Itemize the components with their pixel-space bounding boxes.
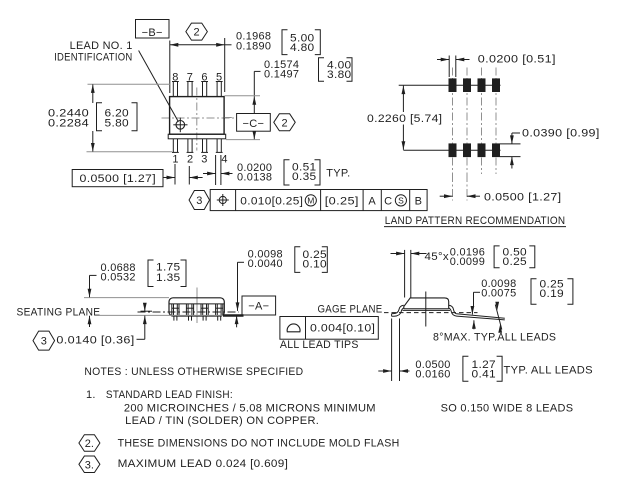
svg-text:LEAD NO. 1: LEAD NO. 1 — [70, 40, 133, 52]
chamfer extension lines — [404, 250, 406, 298]
D dimension line — [170, 44, 225, 46]
land pattern bottom pads — [449, 144, 456, 157]
fcf hexagon note 3 — [189, 191, 210, 210]
standoff tick line — [141, 310, 153, 312]
svg-text:0.0160: 0.0160 — [415, 368, 450, 380]
svg-text:THESE DIMENSIONS DO NOT INCLUD: THESE DIMENSIONS DO NOT INCLUDE MOLD FLA… — [118, 437, 400, 449]
E1 dim leader elbow — [254, 70, 260, 72]
hexagon note 2 (beside -C-) — [274, 114, 296, 131]
top view body outline — [170, 97, 225, 135]
svg-text:3: 3 — [196, 195, 202, 207]
svg-text:0.0075: 0.0075 — [481, 288, 516, 300]
top view body bottom strip — [168, 134, 226, 139]
svg-text:0.25: 0.25 — [503, 256, 528, 268]
svg-text:4: 4 — [221, 154, 227, 166]
land pattern pad centerlines — [452, 68, 454, 175]
note 3 hexagon — [79, 456, 100, 473]
lead width metric bracket [0.51/0.35] — [284, 160, 290, 185]
svg-text:2: 2 — [281, 117, 287, 129]
svg-text:0.0140 [0.36]: 0.0140 [0.36] — [56, 334, 134, 346]
pad length arrows — [511, 133, 513, 144]
svg-text:0.41: 0.41 — [472, 369, 497, 381]
side view lead centerline dash-dot — [138, 311, 239, 313]
svg-text:3: 3 — [201, 154, 207, 166]
lead width arrows — [203, 173, 216, 175]
svg-text:8°MAX. TYP.ALL LEADS: 8°MAX. TYP.ALL LEADS — [433, 332, 556, 344]
flatness dome symbol — [287, 324, 300, 332]
svg-text:A: A — [368, 195, 376, 207]
a1 dim metric bracket [0.25/0.10] — [295, 247, 301, 273]
8 degree arrows — [495, 302, 499, 311]
lead thickness metric bracket [0.25/0.19] — [531, 279, 537, 304]
end view body outline — [404, 298, 449, 309]
svg-text:MAXIMUM LEAD 0.024 [0.609]: MAXIMUM LEAD 0.024 [0.609] — [118, 458, 289, 470]
side view body outline — [169, 298, 224, 316]
svg-text:STANDARD LEAD FINISH:: STANDARD LEAD FINISH: — [106, 389, 233, 401]
pad length leader elbow — [512, 132, 520, 134]
svg-text:0.2260 [5.74]: 0.2260 [5.74] — [367, 113, 442, 125]
E1 dim metric bracket [4.00/3.80] — [319, 58, 325, 81]
D dim metric bracket [5.00/4.80] — [282, 30, 288, 55]
flatness control box — [280, 317, 378, 340]
top view dash-dot vertical centerline — [196, 88, 198, 151]
svg-text:M: M — [307, 196, 314, 206]
E dim bottom extension line — [87, 151, 173, 153]
svg-text:0.10: 0.10 — [303, 258, 328, 270]
pitch dim extension line pin1 — [174, 164, 176, 185]
side view top extension line — [84, 297, 169, 299]
foot length extension lines — [391, 319, 393, 382]
svg-text:TYP. ALL LEADS: TYP. ALL LEADS — [504, 364, 593, 376]
a1 dim lower arrow — [236, 316, 238, 328]
foot length arrows — [378, 370, 391, 372]
svg-text:0.0200 [0.51]: 0.0200 [0.51] — [478, 53, 556, 65]
svg-text:1.: 1. — [86, 389, 96, 401]
svg-text:1.35: 1.35 — [156, 272, 181, 284]
svg-text:0.0138: 0.0138 — [237, 171, 272, 183]
note 2 hexagon — [79, 435, 100, 452]
height dim leader — [90, 274, 97, 276]
top view pins 8 7 6 5 (top leads) — [172, 82, 174, 97]
svg-text:0.1497: 0.1497 — [264, 69, 299, 81]
top view pins 1 2 3 4 (bottom leads) — [172, 139, 174, 152]
svg-text:1: 1 — [172, 154, 178, 166]
svg-text:0.0099: 0.0099 — [450, 256, 485, 268]
land pattern top pads — [449, 79, 456, 92]
pad width extension lines — [448, 56, 450, 78]
body centerline right stub — [225, 117, 232, 119]
pitch dim arrows — [163, 177, 175, 179]
svg-text:5: 5 — [216, 72, 222, 84]
svg-text:3.80: 3.80 — [327, 69, 352, 81]
svg-text:0.0532: 0.0532 — [101, 271, 136, 283]
D dim right extension line — [224, 38, 226, 92]
svg-text:GAGE PLANE: GAGE PLANE — [318, 304, 383, 316]
E1 dim top extension line — [225, 95, 261, 97]
side view gray center vline — [196, 288, 198, 324]
E dimension line vertical — [92, 84, 94, 103]
svg-text:B: B — [415, 195, 423, 207]
8 degree angle line — [495, 305, 502, 330]
svg-text:ALL LEAD TIPS: ALL LEAD TIPS — [280, 339, 359, 351]
land span dimension line — [402, 86, 404, 112]
svg-text:0.004[0.10]: 0.004[0.10] — [310, 323, 375, 335]
land pattern top row line — [399, 84, 501, 86]
E1 dim bottom extension line — [226, 139, 260, 141]
svg-text:2.: 2. — [85, 438, 94, 450]
svg-text:5.80: 5.80 — [105, 118, 130, 130]
fcf position symbol — [219, 196, 226, 203]
a1 dim leader elbow — [238, 261, 245, 263]
svg-text:0.1890: 0.1890 — [236, 41, 271, 53]
svg-text:S: S — [398, 196, 404, 206]
fcf outer box — [210, 190, 427, 211]
hexagon note 2 (top) — [186, 23, 208, 40]
land pattern bottom row line — [403, 149, 500, 151]
pad length extension lines — [500, 143, 521, 145]
svg-text:TYP.: TYP. — [326, 168, 350, 180]
svg-text:3: 3 — [41, 336, 47, 348]
pin 1 identification symbol — [176, 121, 185, 130]
end view center vline — [425, 292, 427, 327]
svg-text:0.0390 [0.99]: 0.0390 [0.99] — [522, 128, 600, 140]
svg-text:4.80: 4.80 — [290, 42, 315, 54]
svg-text:8: 8 — [172, 72, 178, 84]
leader from label to pin1 id — [139, 51, 179, 122]
pitch dim extension line pin2 — [188, 166, 190, 185]
standoff arrows — [144, 304, 146, 312]
E dim metric bracket [6.20/5.80] — [97, 103, 103, 131]
svg-text:IDENTIFICATION: IDENTIFICATION — [54, 52, 132, 64]
datum -A- box — [242, 296, 276, 315]
svg-text:C: C — [384, 195, 392, 207]
a1 dimension line upper — [237, 262, 239, 311]
pitch dim box 0.0500 [1.27] — [72, 170, 163, 187]
svg-text:0.19: 0.19 — [540, 288, 565, 300]
seating plane line — [100, 314, 223, 316]
gage plane dashed line — [384, 312, 478, 314]
svg-text:2: 2 — [194, 27, 200, 39]
svg-text:0.0500 [1.27]: 0.0500 [1.27] — [80, 173, 157, 185]
chamfer arrows — [391, 253, 405, 255]
side view near-row leads — [171, 304, 173, 315]
standoff leader elbow — [137, 338, 145, 340]
land pitch arrows — [440, 195, 453, 197]
svg-text:[0.25]: [0.25] — [325, 195, 359, 207]
svg-text:−A−: −A− — [248, 301, 269, 313]
pad width arrows — [437, 59, 449, 61]
height dim lower arrow — [89, 316, 91, 327]
foot length metric bracket [1.27/0.41] — [463, 356, 469, 381]
height dim metric bracket [1.75/1.35] — [148, 260, 154, 287]
svg-text:200 MICROINCHES / 5.08 MICRONS: 200 MICROINCHES / 5.08 MICRONS MINIMUM — [124, 403, 376, 415]
svg-text:0.0040: 0.0040 — [248, 258, 283, 270]
svg-text:45°x: 45°x — [425, 251, 450, 263]
side view lead frame line — [169, 303, 224, 305]
E dim top extension line — [88, 83, 171, 85]
end view left lead — [392, 305, 404, 313]
D dim left extension line — [169, 41, 171, 94]
end view body bottom lines — [404, 308, 449, 310]
datum -B- box — [136, 20, 170, 39]
datum -C- box — [237, 114, 271, 132]
svg-text:0.010[0.25]: 0.010[0.25] — [240, 195, 303, 207]
fcf M circle modifier — [305, 195, 316, 206]
svg-text:SO 0.150 WIDE 8 LEADS: SO 0.150 WIDE 8 LEADS — [441, 403, 574, 415]
standoff hexagon note 3 — [33, 331, 55, 350]
svg-text:6: 6 — [201, 72, 207, 84]
svg-text:0.2284: 0.2284 — [48, 117, 89, 129]
svg-text:SEATING PLANE: SEATING PLANE — [17, 306, 101, 318]
svg-text:LAND PATTERN RECOMMENDATION: LAND PATTERN RECOMMENDATION — [385, 215, 566, 227]
lead thickness leader elbow — [474, 291, 481, 293]
svg-text:3.: 3. — [85, 459, 94, 471]
svg-text:2: 2 — [187, 154, 193, 166]
svg-text:−C−: −C− — [243, 118, 265, 130]
side view far-row leads below body — [173, 316, 175, 321]
svg-text:NOTES : UNLESS OTHERWISE SPECI: NOTES : UNLESS OTHERWISE SPECIFIED — [84, 366, 303, 378]
svg-text:7: 7 — [187, 72, 193, 84]
fcf S circle modifier — [395, 195, 406, 206]
end view right lead — [449, 305, 457, 313]
lead thickness arrows — [471, 306, 473, 315]
svg-text:0.35: 0.35 — [292, 171, 317, 183]
svg-text:0.0500 [1.27]: 0.0500 [1.27] — [484, 192, 562, 204]
fcf cell dividers — [235, 190, 237, 211]
svg-text:−B−: −B− — [142, 27, 163, 39]
E1 dimension line vertical — [253, 96, 255, 139]
lead width extension lines — [215, 155, 217, 185]
chamfer metric bracket [0.50/0.25] — [494, 246, 500, 268]
top view dash-dot horizontal centerline — [162, 117, 247, 119]
svg-text:LEAD / TIN (SOLDER) ON COPPER.: LEAD / TIN (SOLDER) ON COPPER. — [125, 415, 319, 427]
right lead foot wedge — [456, 314, 504, 319]
